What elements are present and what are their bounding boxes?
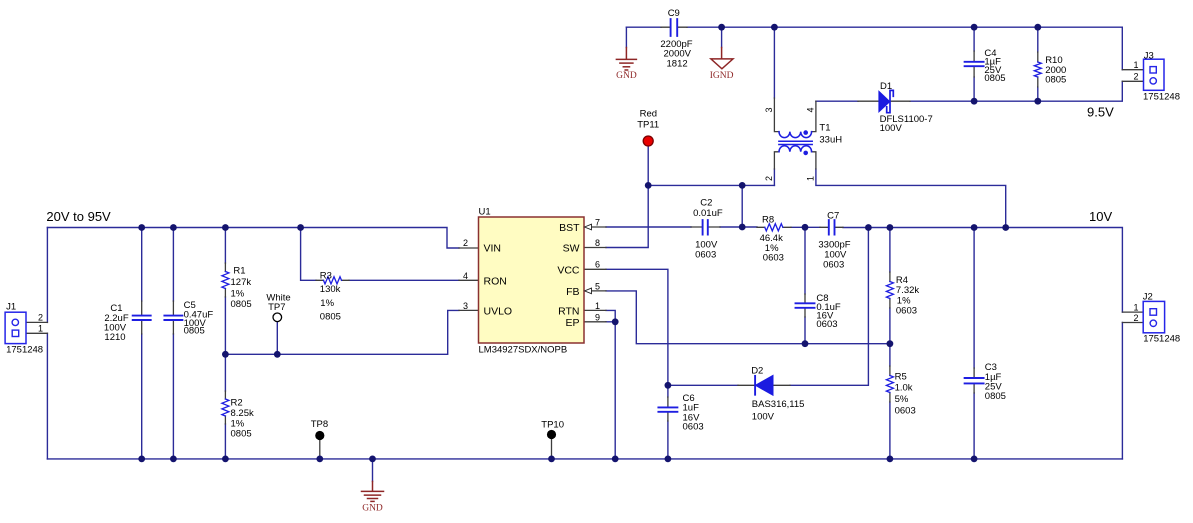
pin stub U1 VCC — [584, 268, 606, 270]
svg-text:1751248: 1751248 — [1143, 91, 1180, 102]
svg-text:2: 2 — [1133, 313, 1138, 323]
wire input net: top-left rail 20V-95V — [47, 228, 459, 249]
junction 9.5V line C4 — [971, 98, 978, 105]
svg-text:1210: 1210 — [104, 332, 125, 343]
junction SW line at R4 — [887, 224, 894, 231]
ground symbol IGND triangle — [721, 48, 723, 59]
connector J1 pin1 square — [12, 330, 19, 336]
svg-text:UVLO: UVLO — [484, 305, 513, 317]
junction ground rail C6 — [665, 456, 672, 463]
svg-text:C7: C7 — [827, 211, 839, 222]
junction ground rail C1 — [138, 456, 145, 463]
pin stub U1 RTN — [584, 309, 606, 311]
pin stub C6 — [667, 397, 669, 421]
svg-text:LM34927SDX/NOPB: LM34927SDX/NOPB — [479, 344, 568, 355]
pin stub R5 — [889, 366, 891, 402]
pin stub U1 UVLO — [459, 309, 479, 311]
junction ground rail TP10 — [548, 456, 555, 463]
wire input net: J1 pin2 riser — [46, 228, 48, 323]
svg-text:J3: J3 — [1144, 50, 1154, 61]
svg-text:R8: R8 — [762, 215, 774, 226]
svg-text:BAS316,115: BAS316,115 — [752, 399, 805, 410]
capacitor C3 plates — [965, 378, 984, 383]
wire R4 vertical — [889, 228, 891, 344]
svg-text:U1: U1 — [479, 207, 491, 218]
resistor R4 zigzag — [886, 282, 893, 299]
wire SW net: TP11 rail — [648, 184, 774, 186]
resistor R3 zigzag — [324, 277, 342, 284]
wire T1 pin1 net to output — [816, 169, 1006, 228]
wire top rail C9/IGND/T1/C4/R10 — [626, 27, 1122, 69]
pin stub C7 — [820, 226, 843, 228]
svg-text:4: 4 — [463, 271, 468, 281]
pin stub T1 pin2 — [774, 152, 779, 169]
svg-text:5%: 5% — [895, 394, 909, 405]
svg-text:130k: 130k — [320, 284, 341, 295]
junction 10V line at C3 — [971, 224, 978, 231]
pin stub C1 — [141, 301, 143, 334]
pin line J2 pin1 — [1122, 311, 1143, 313]
wire ground net: bottom rail — [47, 458, 1122, 460]
svg-text:3: 3 — [463, 301, 468, 311]
wire C8 vertical — [804, 227, 806, 344]
svg-text:8.25k: 8.25k — [231, 408, 254, 419]
svg-text:1%: 1% — [320, 298, 334, 309]
svg-text:D2: D2 — [751, 365, 763, 376]
pin stub C4 — [973, 51, 975, 77]
diode D1 schottky cathode bar — [887, 90, 894, 112]
svg-text:8: 8 — [595, 238, 600, 248]
capacitor C2 plates — [703, 220, 708, 234]
svg-text:2: 2 — [463, 238, 468, 248]
diode D1 DFLS1100 triangle — [879, 91, 890, 112]
svg-text:0603: 0603 — [695, 249, 716, 260]
wire UVLO net — [225, 310, 459, 354]
pin stub R8 — [757, 226, 791, 228]
svg-text:FB: FB — [566, 286, 579, 298]
svg-text:D1: D1 — [880, 81, 892, 92]
capacitor C6 plates — [658, 407, 677, 411]
svg-text:4: 4 — [806, 107, 816, 112]
svg-text:1751248: 1751248 — [6, 345, 43, 356]
pin stub T1 pin3 — [774, 98, 779, 132]
svg-text:1.0k: 1.0k — [895, 383, 913, 394]
junction BST/C2 node — [739, 224, 746, 231]
svg-text:1: 1 — [1133, 60, 1138, 70]
capacitor C5 plates — [164, 316, 182, 320]
testpoint TP8 — [315, 431, 324, 440]
junction TP11 rail at TP11 — [645, 182, 652, 189]
junction ground rail R5 — [887, 456, 894, 463]
junction input rail at C5 — [170, 224, 177, 231]
svg-text:0603: 0603 — [895, 405, 916, 416]
svg-text:9: 9 — [595, 312, 600, 322]
junction ground rail R2 — [222, 456, 229, 463]
svg-text:2: 2 — [764, 176, 774, 181]
pin stub T1 pin1 — [812, 152, 816, 169]
pin stub D2 — [738, 384, 790, 386]
pin line J1 pin2 — [19, 321, 48, 323]
pin stub R4 — [889, 272, 891, 308]
pin line J2 pin2 — [1122, 322, 1143, 324]
capacitor C4 plates — [965, 62, 984, 66]
ground symbol GND bottom — [362, 481, 384, 501]
svg-text:0805: 0805 — [985, 391, 1006, 402]
wire R10 vertical — [1037, 27, 1039, 101]
pin stub TP10 — [551, 439, 553, 459]
wire TP7 stub — [276, 322, 278, 355]
svg-text:0603: 0603 — [763, 252, 784, 263]
wire C1 vertical — [141, 228, 143, 459]
pin stub C5 — [172, 301, 174, 334]
connector J2 pin1 square — [1150, 309, 1157, 316]
junction top rail IGND — [718, 24, 725, 31]
junction VCC/D2/C6 — [665, 382, 672, 389]
wire TP11 stub — [647, 146, 649, 185]
wire IGND stub — [721, 27, 723, 47]
svg-text:EP: EP — [565, 317, 579, 329]
capacitor C9 plates — [671, 19, 678, 36]
diode D2 cathode bar — [754, 376, 756, 395]
wire C5 vertical — [172, 228, 174, 459]
svg-text:0805: 0805 — [1045, 74, 1066, 85]
svg-text:5: 5 — [595, 281, 600, 291]
svg-text:1: 1 — [38, 323, 43, 333]
svg-text:6: 6 — [595, 260, 600, 270]
svg-text:TP8: TP8 — [311, 419, 328, 430]
pin stub C3 — [973, 368, 975, 393]
svg-text:0805: 0805 — [984, 73, 1005, 84]
resistor R1 zigzag — [222, 272, 229, 289]
svg-text:R5: R5 — [895, 372, 907, 383]
svg-text:VIN: VIN — [484, 243, 502, 255]
testpoint TP7 — [273, 313, 282, 322]
diode D2 BAS316 triangle — [755, 375, 773, 395]
pin arrow U1 FB — [585, 288, 592, 294]
wire T1 pin3 riser — [773, 27, 775, 98]
svg-text:GND: GND — [616, 71, 637, 81]
wire C6 vertical — [667, 385, 669, 459]
pin stub U1 SW — [584, 247, 606, 249]
pin stub R2 — [224, 391, 226, 424]
junction UVLO node TP7 — [274, 351, 281, 358]
wire VCC net — [606, 269, 668, 385]
IC U1 LM34927 body — [479, 217, 585, 343]
wire SW node: C2 right to R8 left — [720, 226, 757, 228]
wire BST net — [606, 226, 691, 228]
transformer T1 secondary winding — [779, 146, 812, 152]
svg-text:0805: 0805 — [231, 299, 252, 310]
ground symbol GND top — [616, 48, 636, 71]
connector J1 pin2 circle — [12, 319, 18, 325]
wire T1 pin2 drop — [773, 169, 775, 185]
pin stub U1 BST — [591, 226, 606, 228]
junction FB node R4/R5 — [887, 340, 894, 347]
connector J3 pin2 circle — [1150, 78, 1156, 84]
junction ground rail C5 — [170, 456, 177, 463]
transformer T1 core lines — [779, 141, 812, 144]
resistor R2 zigzag — [222, 399, 229, 416]
svg-text:C9: C9 — [668, 8, 680, 19]
junction TP11 rail drop — [739, 182, 746, 189]
junction EP/RTN — [612, 318, 619, 325]
svg-text:GND: GND — [362, 503, 383, 513]
junction input rail at R3 — [297, 224, 304, 231]
svg-text:0603: 0603 — [816, 319, 837, 330]
junction FB line C8 — [802, 340, 809, 347]
svg-text:TP11: TP11 — [637, 120, 659, 131]
junction top rail C4 — [971, 24, 978, 31]
pin stub D1 anode — [858, 100, 879, 102]
svg-text:9.5V: 9.5V — [1087, 105, 1114, 120]
svg-text:0603: 0603 — [823, 259, 844, 270]
pin stub U1 FB — [591, 290, 606, 292]
wire C3 vertical — [973, 228, 975, 459]
wire D2 net left — [668, 384, 738, 386]
svg-text:20V to 95V: 20V to 95V — [46, 209, 111, 224]
svg-text:T1: T1 — [819, 123, 830, 134]
svg-text:RON: RON — [484, 275, 507, 287]
svg-text:J2: J2 — [1143, 292, 1153, 303]
svg-text:1%: 1% — [231, 288, 245, 299]
pin stub R10 — [1037, 52, 1039, 87]
wire top GND stub — [625, 27, 627, 47]
capacitor C8 plates — [796, 303, 815, 308]
capacitor C7 plates — [829, 220, 835, 234]
svg-text:0603: 0603 — [896, 305, 917, 316]
junction ground rail C3 — [971, 456, 978, 463]
svg-text:100V: 100V — [880, 123, 903, 134]
wire R2 vertical — [224, 354, 226, 459]
svg-text:100V: 100V — [752, 412, 775, 423]
svg-text:1: 1 — [806, 176, 816, 181]
svg-text:2: 2 — [1133, 72, 1138, 82]
wire J2 pin2 drop to ground rail — [1121, 323, 1123, 459]
pin stub C2 — [691, 226, 720, 228]
junction input rail at R1 — [222, 224, 229, 231]
pin stub TP8 — [319, 440, 321, 459]
testpoint TP11 — [643, 136, 653, 146]
transformer T1 phase dot primary — [803, 130, 808, 135]
svg-text:0805: 0805 — [231, 429, 252, 440]
svg-text:SW: SW — [563, 243, 580, 255]
pin stub C8 — [804, 294, 806, 317]
junction ground rail GND — [369, 456, 376, 463]
junction ground rail RTN — [612, 456, 619, 463]
svg-text:127k: 127k — [231, 277, 252, 288]
junction input rail at C1 — [138, 224, 145, 231]
pin stub U1 RON — [459, 279, 479, 281]
svg-text:3: 3 — [764, 107, 774, 112]
wire C4 vertical — [973, 27, 975, 101]
svg-text:7: 7 — [595, 218, 600, 228]
connector J2 body — [1143, 301, 1164, 332]
svg-text:0805: 0805 — [320, 312, 341, 323]
junction top rail T1 pin3 — [771, 24, 778, 31]
wire SW net: SW pin to TP11 rail — [606, 185, 648, 247]
wire SW net: drop to C2 junction — [741, 185, 743, 227]
pin stub C9 — [661, 26, 687, 28]
svg-text:R1: R1 — [233, 266, 245, 277]
pin line J1 pin1 — [19, 332, 48, 334]
resistor R8 zigzag — [765, 224, 783, 231]
junction SW line at D2 riser — [865, 224, 872, 231]
svg-text:VCC: VCC — [557, 264, 580, 276]
svg-text:1812: 1812 — [667, 58, 688, 69]
wire D1 cathode line 9.5V — [816, 81, 1122, 101]
junction SW line at C8 — [802, 224, 809, 231]
wire FB net from pin — [606, 291, 890, 344]
pin arrow U1 BST — [585, 224, 592, 230]
junction UVLO node R1/R2 — [222, 351, 229, 358]
connector J2 pin2 circle — [1150, 320, 1156, 326]
capacitor C1 plates — [133, 316, 151, 320]
svg-text:Red: Red — [640, 109, 657, 120]
svg-text:J1: J1 — [6, 302, 16, 313]
svg-text:IGND: IGND — [710, 71, 734, 81]
junction top rail R10 — [1034, 24, 1041, 31]
pin stub D1 cathode — [891, 100, 911, 102]
wire D2 net right to SW — [790, 228, 868, 386]
svg-text:TP7: TP7 — [268, 302, 285, 313]
transformer T1 primary winding — [779, 132, 812, 138]
svg-text:2: 2 — [38, 313, 43, 323]
junction ground rail TP8 — [316, 456, 323, 463]
pin stub U1 EP — [584, 321, 606, 323]
connector J3 pin1 square — [1150, 67, 1156, 73]
junction 9.5V line R10 — [1034, 98, 1041, 105]
svg-text:0603: 0603 — [683, 422, 704, 433]
resistor R10 zigzag — [1034, 62, 1041, 77]
connector J3 body — [1144, 59, 1165, 90]
svg-text:10V: 10V — [1089, 209, 1112, 224]
transformer T1 phase dot secondary — [803, 151, 808, 156]
svg-text:TP10: TP10 — [541, 419, 564, 430]
svg-text:1751248: 1751248 — [1143, 334, 1180, 345]
junction 10V line at T1 pin1 drop — [1002, 224, 1009, 231]
wire SW node: R8 right to C7 left — [791, 226, 820, 228]
resistor R5 zigzag — [886, 376, 893, 393]
wire bottom GND stub — [372, 459, 374, 482]
pin stub T1 pin4 — [812, 101, 816, 131]
svg-text:RTN: RTN — [558, 305, 579, 317]
wire ground net: J1 pin1 drop — [46, 333, 48, 459]
connector J1 body — [5, 312, 26, 343]
pin stub R1 — [224, 263, 226, 297]
pin line J3 pin2 — [1122, 80, 1143, 82]
testpoint TP10 — [547, 430, 556, 439]
pin stub R3 — [316, 279, 349, 281]
wire output 10V line: C7 right to J2 pin1 — [843, 228, 1122, 313]
svg-text:0.01uF: 0.01uF — [693, 208, 723, 219]
svg-text:33uH: 33uH — [819, 135, 842, 146]
pin line J3 pin1 — [1122, 69, 1143, 71]
pin stub U1 VIN — [459, 247, 479, 249]
wire RTN/EP net — [606, 310, 615, 459]
wire R1 vertical — [224, 228, 226, 355]
wire R5 vertical — [889, 344, 891, 459]
svg-text:R3: R3 — [320, 271, 332, 282]
svg-text:BST: BST — [559, 222, 580, 234]
svg-text:1: 1 — [1133, 303, 1138, 313]
svg-text:1: 1 — [595, 301, 600, 311]
wire RON net to R3 — [301, 228, 459, 281]
svg-text:0805: 0805 — [184, 326, 205, 337]
